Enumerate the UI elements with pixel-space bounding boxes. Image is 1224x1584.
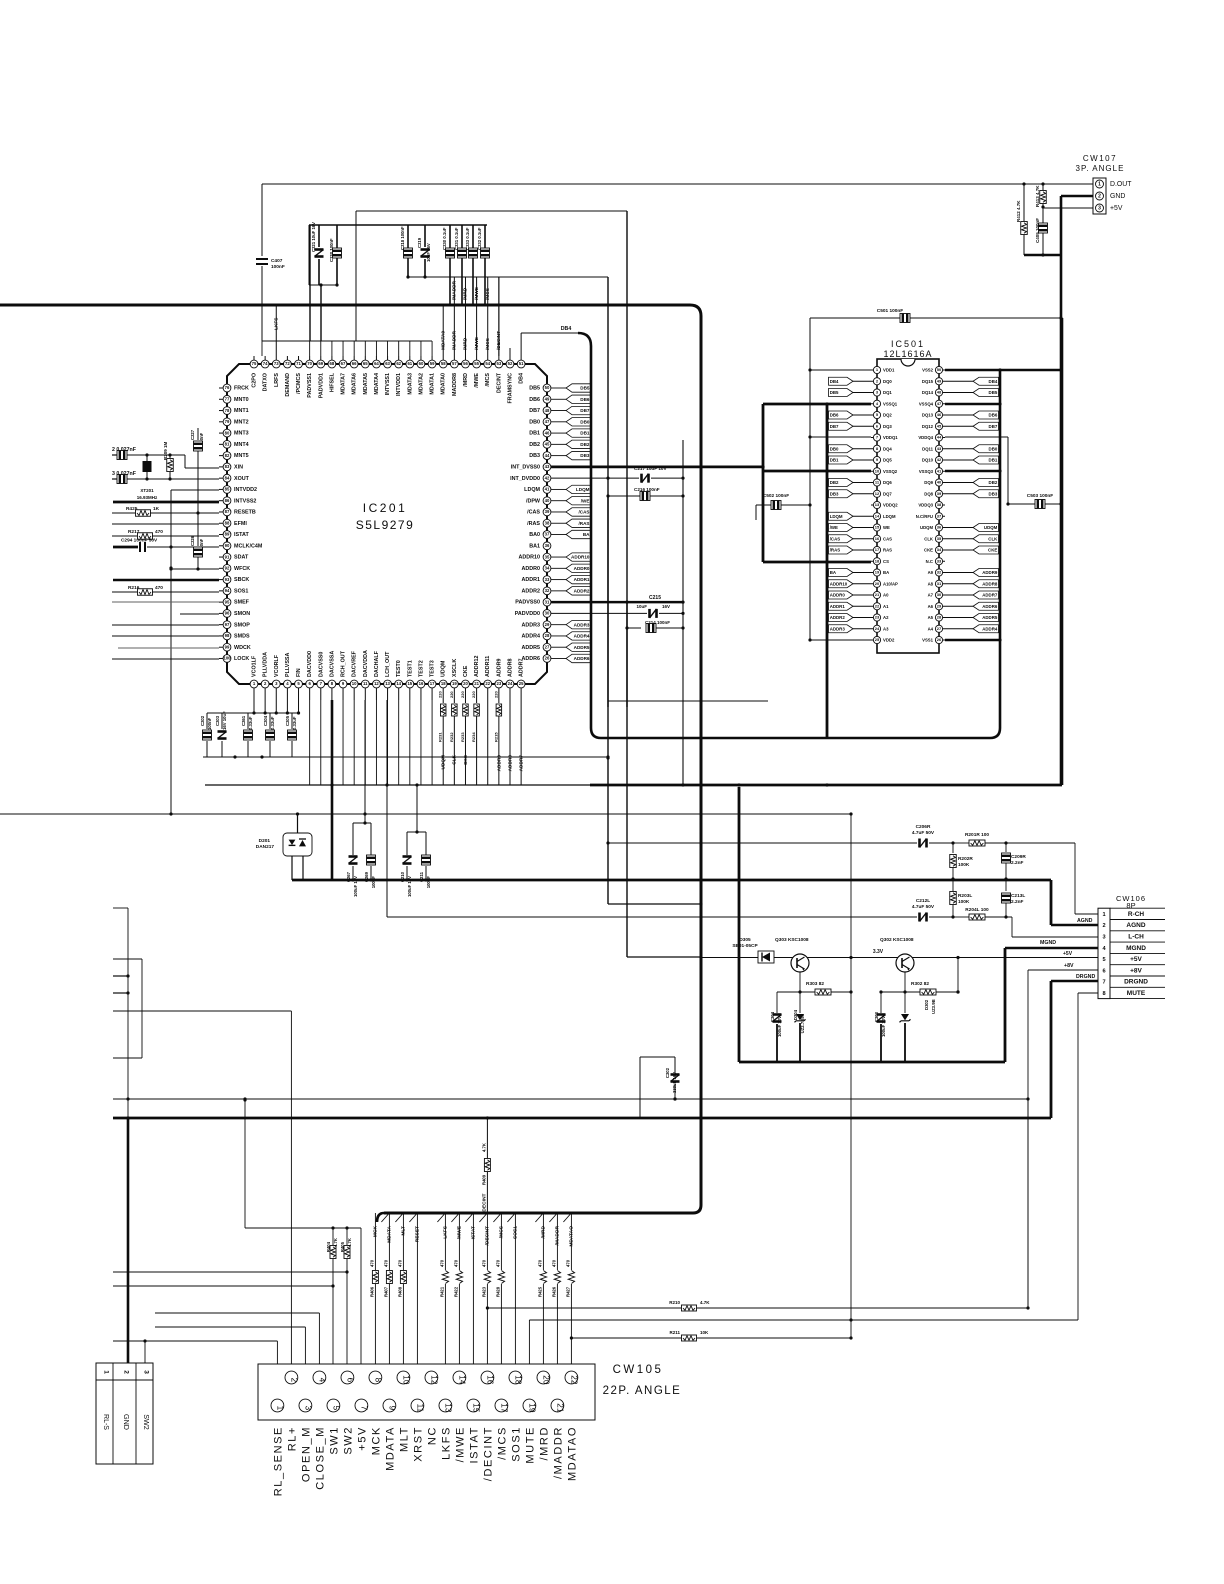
svg-text:C221 10uF 16V: C221 10uF 16V (311, 222, 316, 252)
capacitor C213L 2.2nF (1002, 879, 1026, 919)
svg-text:/MWE: /MWE (474, 337, 480, 350)
svg-text:EFMI: EFMI (234, 521, 247, 527)
svg-text:NC: NC (427, 1426, 439, 1445)
svg-text:100: 100 (223, 656, 231, 661)
svg-text:29: 29 (545, 622, 550, 627)
svg-text:PADVDD1: PADVDD1 (318, 373, 324, 398)
svg-text:D201: D201 (259, 838, 271, 844)
wire FRAMSYNC DECINT stubs (499, 277, 510, 356)
svg-text:C218 100nF: C218 100nF (400, 226, 405, 250)
svg-text:45: 45 (545, 442, 550, 447)
svg-text:26: 26 (545, 656, 550, 661)
svg-text:FRAMSYNC: FRAMSYNC (507, 373, 513, 404)
svg-text:MNT3: MNT3 (234, 431, 249, 437)
svg-text:37: 37 (545, 532, 550, 537)
svg-text:S5L9279: S5L9279 (356, 518, 415, 532)
svg-text:C226: C226 (190, 535, 195, 546)
svg-text:DB6: DB6 (989, 413, 998, 418)
svg-text:C230 0.1uF: C230 0.1uF (442, 227, 447, 250)
svg-text:/CAS: /CAS (578, 510, 589, 515)
wire pin2 feed (113, 1011, 291, 1364)
svg-text:ADDR5: ADDR5 (574, 645, 590, 650)
svg-text:C203: C203 (215, 715, 220, 726)
svg-text:2: 2 (289, 1378, 298, 1383)
svg-text:MNT4: MNT4 (234, 442, 249, 448)
svg-text:36: 36 (937, 525, 942, 530)
svg-text:4.7uF 50V: 4.7uF 50V (912, 830, 935, 836)
diode D201 DAN217 (256, 812, 312, 880)
svg-text:DB5: DB5 (529, 386, 540, 392)
wire DB4 flag top (521, 326, 578, 356)
svg-text:MDATA0: MDATA0 (441, 373, 447, 395)
capacitor C302 330uF 16V (640, 1057, 680, 1117)
svg-text:DB3: DB3 (989, 491, 998, 496)
svg-text:C503 100nF: C503 100nF (1027, 493, 1054, 499)
svg-text:DECINT: DECINT (496, 372, 502, 393)
svg-text:ADDR2: ADDR2 (574, 588, 590, 593)
svg-text:BA: BA (883, 570, 889, 575)
svg-text:DB0: DB0 (529, 419, 540, 425)
memory IC501 12L1616A body (877, 339, 939, 653)
svg-text:DQ0: DQ0 (883, 379, 892, 384)
svg-text:WFCK: WFCK (234, 566, 250, 572)
svg-text:PADVSS1: PADVSS1 (307, 373, 313, 398)
svg-text:TEST3: TEST3 (430, 660, 436, 677)
resistor R303 82 (777, 981, 851, 995)
svg-text:20: 20 (541, 1375, 550, 1385)
svg-text:/MADDR: /MADDR (553, 1426, 565, 1479)
svg-text:17: 17 (499, 1403, 508, 1413)
svg-text:C2PO: C2PO (252, 373, 258, 388)
resistor R404 4.7K (326, 1226, 338, 1364)
resistor R215 220 (493, 691, 501, 785)
capacitor C261 0.33uF (241, 713, 253, 757)
diode D305 SB01-05CP (700, 937, 1098, 963)
capacitor C209R 2.2nF (951, 843, 1026, 881)
svg-text:ADDR1: ADDR1 (521, 577, 540, 583)
svg-text:50: 50 (545, 385, 550, 390)
bus drop MLT (395, 1213, 406, 1364)
svg-text:VSSQ2: VSSQ2 (883, 469, 898, 474)
svg-text:SOS1: SOS1 (234, 588, 248, 594)
svg-text:R217: R217 (128, 529, 140, 535)
svg-text:/MADDR: /MADDR (452, 330, 458, 350)
svg-text:23: 23 (496, 681, 501, 686)
capacitor C232 0.1uF (477, 225, 490, 305)
svg-text:/DECINT: /DECINT (482, 1193, 488, 1213)
svg-text:C302: C302 (665, 1067, 670, 1078)
svg-text:N.C/RFU: N.C/RFU (916, 514, 933, 519)
svg-text:MNT0: MNT0 (234, 397, 249, 403)
svg-text:16: 16 (419, 681, 424, 686)
svg-text:220: 220 (493, 691, 498, 698)
svg-text:1: 1 (103, 1370, 110, 1374)
svg-text:R428: R428 (496, 1286, 501, 1297)
svg-text:22: 22 (569, 1375, 578, 1385)
svg-text:R405: R405 (340, 1241, 345, 1252)
zener D304 UZ2.7B (793, 992, 806, 1062)
svg-text:19: 19 (452, 681, 457, 686)
svg-text:R201R 100: R201R 100 (965, 832, 989, 838)
svg-text:DQ9: DQ9 (924, 480, 933, 485)
svg-text:14: 14 (457, 1375, 466, 1385)
capacitor C304 100uF 10V (770, 992, 782, 1062)
wire IC501 VSS box left (761, 404, 871, 562)
svg-text:52: 52 (508, 361, 513, 366)
bus drop labels above IC201 (440, 277, 502, 356)
svg-text:3: 3 (1102, 934, 1105, 940)
svg-text:33: 33 (937, 558, 942, 563)
svg-text:4.7uF 50V: 4.7uF 50V (912, 904, 935, 910)
svg-text:RL+: RL+ (287, 1426, 299, 1451)
svg-text:9: 9 (387, 1406, 396, 1411)
svg-text:AGND: AGND (1126, 922, 1145, 929)
svg-text:MCK: MCK (371, 1426, 383, 1455)
wire main rail y305 thick (0, 305, 701, 316)
wire MGND label (1040, 940, 1074, 969)
svg-text:43: 43 (937, 446, 942, 451)
svg-text:R425: R425 (126, 506, 138, 512)
svg-text:45: 45 (937, 423, 942, 428)
svg-text:VSS1: VSS1 (922, 638, 934, 643)
svg-text:47: 47 (937, 401, 942, 406)
svg-text:FIN: FIN (296, 668, 302, 677)
svg-text:ADDR4: ADDR4 (574, 634, 590, 639)
svg-text:CKE: CKE (988, 548, 997, 553)
svg-text:CLK: CLK (452, 754, 458, 764)
wire SMDS (112, 635, 219, 637)
svg-text:4.7K: 4.7K (333, 1237, 338, 1247)
svg-text:HIFSEL: HIFSEL (329, 372, 335, 392)
svg-text:LOCK: LOCK (234, 656, 249, 662)
svg-text:INT_DVSS0: INT_DVSS0 (511, 464, 540, 470)
svg-text:D302: D302 (924, 999, 929, 1010)
svg-text:31: 31 (545, 599, 550, 604)
connector CW105 22P ANGLE (258, 1364, 681, 1420)
svg-text:MGND: MGND (1040, 940, 1056, 946)
resistor R209 1M (163, 441, 173, 479)
svg-text:57: 57 (452, 361, 457, 366)
wire rail y880 AGND (292, 880, 1051, 925)
svg-text:98: 98 (225, 633, 230, 638)
svg-text:21: 21 (555, 1403, 564, 1413)
svg-text:C219: C219 (417, 237, 422, 248)
capacitor C217 10uF 10V (608, 466, 685, 483)
svg-text:D305: D305 (739, 937, 751, 943)
svg-text:SBCK: SBCK (234, 577, 249, 583)
svg-text:INTVSS2: INTVSS2 (234, 498, 256, 504)
svg-text:R210: R210 (669, 1300, 680, 1305)
svg-text:48: 48 (545, 408, 550, 413)
svg-text:C233 0.1uF: C233 0.1uF (465, 227, 470, 250)
svg-text:DQ15: DQ15 (922, 379, 934, 384)
svg-text:R234: R234 (471, 732, 476, 742)
bus drop ISTAT (465, 1213, 476, 1364)
svg-text:XOUT: XOUT (234, 476, 250, 482)
svg-text:/MRD: /MRD (539, 1426, 551, 1461)
bus drop MDATAO (563, 1213, 574, 1364)
svg-text:ADDR9: ADDR9 (496, 658, 502, 677)
IC201 top pins (250, 356, 525, 403)
svg-text:72: 72 (285, 361, 290, 366)
svg-text:INT_DVDD0: INT_DVDD0 (510, 476, 540, 482)
svg-text:DQ1: DQ1 (883, 390, 892, 395)
svg-text:DB3: DB3 (830, 491, 839, 496)
svg-text:DACVSSA: DACVSSA (329, 651, 335, 677)
svg-text:MDATA4: MDATA4 (374, 373, 380, 395)
svg-text:DQ7: DQ7 (883, 491, 892, 496)
svg-text:A3: A3 (883, 626, 889, 631)
svg-text:24: 24 (875, 626, 880, 631)
bus drop MDATA (381, 1213, 392, 1364)
svg-text:1K: 1K (153, 506, 160, 512)
wire CW107 GND down to rail (1060, 255, 1063, 785)
resistor R201R 100 (951, 832, 1075, 846)
svg-text:20: 20 (875, 581, 880, 586)
wire bottom pin drops (254, 688, 521, 785)
svg-text:R426: R426 (552, 1286, 557, 1297)
svg-text:ADDR0: ADDR0 (574, 566, 590, 571)
resistor R211 10K (570, 1330, 851, 1341)
resistor R204L 100 (953, 907, 1012, 920)
resistor R231 220 (438, 691, 446, 785)
svg-text:ADDR0: ADDR0 (830, 593, 846, 598)
svg-text:DRGND: DRGND (1124, 979, 1148, 986)
wire pll caps connect (252, 700, 300, 715)
svg-text:/MCS: /MCS (497, 1426, 509, 1460)
svg-text:3.3V: 3.3V (873, 949, 884, 955)
svg-text:A10/AP: A10/AP (883, 581, 898, 586)
svg-text:DB2: DB2 (580, 442, 590, 447)
svg-text:DB5: DB5 (830, 390, 839, 395)
svg-text:0.33uF: 0.33uF (292, 716, 297, 730)
transistor Q302 KSC1008 (880, 937, 914, 994)
svg-text:/MRD: /MRD (463, 287, 469, 300)
svg-text:2.2nF: 2.2nF (1011, 899, 1024, 905)
wire SW2 feed (113, 1271, 347, 1273)
svg-text:47: 47 (545, 419, 550, 424)
svg-text:C217 10uF 10V: C217 10uF 10V (634, 466, 667, 471)
svg-text:36: 36 (545, 543, 550, 548)
svg-text:1: 1 (275, 1406, 284, 1411)
svg-text:MDATA0: MDATA0 (440, 331, 446, 350)
svg-text:91: 91 (225, 554, 230, 559)
capacitor CP3 0.027nF (112, 471, 219, 484)
svg-text:R421: R421 (440, 1286, 445, 1297)
svg-text:DB4: DB4 (830, 379, 839, 384)
svg-text:SMON: SMON (234, 611, 250, 617)
svg-text:16: 16 (875, 536, 880, 541)
wire SBCK thick (113, 579, 219, 582)
svg-text:SMEF: SMEF (234, 600, 250, 606)
svg-text:/DPW: /DPW (526, 498, 541, 504)
svg-text:220: 220 (460, 691, 465, 698)
capacitor C233 0.1uF (465, 225, 478, 305)
svg-text:/MCS: /MCS (485, 288, 491, 300)
svg-text:14: 14 (875, 513, 880, 518)
wire MUTE route (529, 993, 1098, 1364)
svg-text:5: 5 (331, 1406, 340, 1411)
svg-text:CLK: CLK (988, 536, 998, 541)
svg-text:DB5: DB5 (580, 386, 590, 391)
svg-text:MNT5: MNT5 (234, 453, 249, 459)
capacitor C501 100nF (810, 308, 1063, 323)
svg-text:54: 54 (485, 361, 490, 366)
svg-text:19: 19 (875, 570, 880, 575)
capacitor C204 0.33uF (263, 713, 275, 757)
svg-text:74: 74 (263, 361, 268, 366)
svg-text:96: 96 (225, 611, 230, 616)
capacitor C202 100nF (200, 713, 212, 757)
wire y277 bus (408, 277, 768, 707)
svg-text:59: 59 (430, 361, 435, 366)
svg-text:2.2nF: 2.2nF (1011, 860, 1024, 866)
svg-text:LKFS: LKFS (441, 1426, 453, 1460)
svg-text:33: 33 (545, 577, 550, 582)
svg-text:R215: R215 (493, 732, 498, 742)
svg-text:46: 46 (937, 412, 942, 417)
svg-text:MGND: MGND (1126, 945, 1146, 952)
wire bus y1213 thick (377, 1213, 693, 1222)
svg-text:13: 13 (875, 502, 880, 507)
svg-text:R-CH: R-CH (1128, 911, 1145, 918)
svg-text:39: 39 (545, 509, 550, 514)
svg-text:21: 21 (474, 681, 479, 686)
wire EFMI (112, 523, 219, 525)
bus drop SOS1 (507, 1213, 518, 1364)
svg-text:42: 42 (937, 457, 942, 462)
IC501 right signal flags (945, 377, 999, 633)
svg-text:UDQM: UDQM (441, 660, 447, 677)
svg-text:MUTE: MUTE (525, 1426, 537, 1464)
wire PADVSS0 (551, 601, 685, 604)
svg-text:R202R: R202R (958, 856, 973, 862)
svg-text:LKFS: LKFS (273, 318, 279, 330)
svg-text:4: 4 (317, 1378, 326, 1383)
svg-text:DB0: DB0 (989, 446, 998, 451)
svg-text:220: 220 (471, 691, 476, 698)
svg-text:43: 43 (545, 464, 550, 469)
svg-text:32: 32 (545, 588, 550, 593)
svg-text:12: 12 (374, 681, 379, 686)
svg-text:C267: C267 (346, 871, 351, 882)
svg-text:R423: R423 (482, 1286, 487, 1297)
svg-text:/MRD: /MRD (463, 337, 469, 350)
svg-text:MDATA5: MDATA5 (363, 373, 369, 395)
svg-text:AGND: AGND (1077, 918, 1093, 924)
wire C267 tap (353, 814, 371, 846)
svg-text:220: 220 (449, 691, 454, 698)
svg-text:93: 93 (225, 577, 230, 582)
svg-text:MDATA3: MDATA3 (407, 373, 413, 395)
svg-text:R231: R231 (438, 732, 443, 742)
svg-text:/RAS: /RAS (830, 548, 841, 553)
svg-text:1: 1 (1098, 182, 1101, 188)
wire y814 line (0, 812, 853, 815)
svg-text:R209 1M: R209 1M (163, 441, 168, 460)
svg-text:+5V: +5V (1130, 956, 1142, 963)
wire LOCK (112, 658, 219, 660)
svg-text:DB4: DB4 (989, 379, 998, 384)
wire SW2 drop x145 (143, 1339, 146, 1363)
svg-text:3: 3 (143, 1370, 150, 1374)
svg-text:A9: A9 (928, 570, 934, 575)
svg-text:100nF: 100nF (271, 264, 285, 270)
svg-text:PLLVSSA: PLLVSSA (285, 652, 291, 677)
svg-text:ADDR4: ADDR4 (521, 634, 540, 640)
svg-text:VSSQ1: VSSQ1 (883, 401, 898, 406)
wire top bus y225 (309, 224, 487, 226)
svg-text:DB0: DB0 (830, 446, 839, 451)
svg-text:VCORLF: VCORLF (274, 654, 280, 677)
svg-text:DQ4: DQ4 (883, 446, 892, 451)
IC201 bottom pins (250, 650, 525, 688)
svg-text:20: 20 (463, 681, 468, 686)
svg-text:8: 8 (373, 1378, 382, 1383)
svg-text:VSSQ3: VSSQ3 (919, 469, 934, 474)
resistor R232 220 (449, 691, 457, 785)
svg-text:ADDR11: ADDR11 (485, 656, 491, 677)
svg-text:DB2: DB2 (529, 442, 540, 448)
svg-text:R413 4.7K: R413 4.7K (1035, 185, 1040, 207)
resistor R210 4.7K (486, 1300, 1027, 1311)
svg-text:UZ3.9B: UZ3.9B (931, 999, 936, 1014)
svg-text:42: 42 (545, 475, 550, 480)
wire x851 vertical (849, 814, 852, 1340)
svg-text:DB3: DB3 (529, 453, 540, 459)
svg-text:16: 16 (485, 1375, 494, 1385)
svg-text:INTVDD2: INTVDD2 (234, 487, 257, 493)
svg-text:49: 49 (937, 378, 942, 383)
svg-text:C209R: C209R (1011, 854, 1026, 860)
svg-text:C212L: C212L (916, 898, 930, 904)
svg-text:N.C: N.C (926, 559, 933, 564)
svg-text:15: 15 (407, 681, 412, 686)
svg-text:16.93MHz: 16.93MHz (137, 495, 158, 500)
svg-text:76: 76 (225, 385, 230, 390)
svg-text:97: 97 (225, 622, 230, 627)
wire SMON (180, 613, 219, 615)
svg-text:34: 34 (937, 547, 942, 552)
svg-text:ADDR9: ADDR9 (982, 570, 998, 575)
svg-text:VDDQ4: VDDQ4 (918, 435, 933, 440)
wire x608 long vertical (606, 496, 702, 906)
svg-text:IC501: IC501 (891, 339, 925, 349)
svg-text:MDATA6: MDATA6 (352, 373, 358, 395)
svg-text:25: 25 (875, 637, 880, 642)
svg-text:DQ12: DQ12 (922, 424, 934, 429)
capacitor C215 10uF 16V (551, 595, 685, 618)
capacitor CP2 0.027nF (112, 447, 219, 468)
svg-text:PADVDD0: PADVDD0 (515, 611, 540, 617)
svg-text:C501 100nF: C501 100nF (877, 308, 904, 314)
svg-text:/MWE: /MWE (474, 287, 480, 300)
svg-text:3P. ANGLE: 3P. ANGLE (1076, 164, 1125, 173)
svg-text:81: 81 (225, 442, 230, 447)
svg-text:R211: R211 (669, 1330, 680, 1335)
svg-text:VDD1: VDD1 (883, 368, 895, 373)
svg-text:MDATA: MDATA (385, 1426, 397, 1471)
svg-text:100nF: 100nF (426, 876, 431, 889)
svg-text:GND: GND (122, 1414, 131, 1430)
capacitor C230 0.1uF (442, 225, 455, 305)
svg-text:DQ2: DQ2 (883, 413, 892, 418)
resistor R413 4.7K (1035, 184, 1046, 207)
wire IC501 left VDD rail thin (808, 318, 871, 642)
svg-text:75: 75 (252, 361, 257, 366)
zener D302 UZ3.9B (900, 992, 937, 1062)
svg-text:67: 67 (341, 361, 346, 366)
